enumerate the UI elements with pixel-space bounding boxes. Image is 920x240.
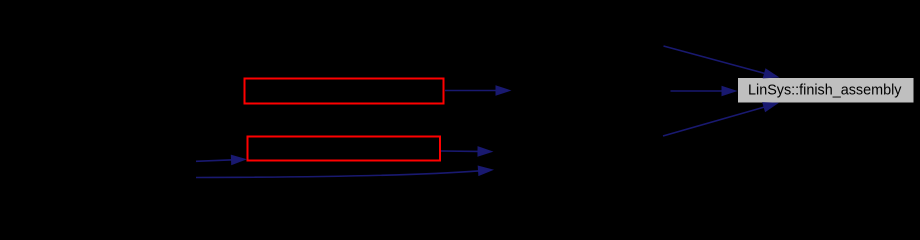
edge g: hidden left node -> red box 2	[196, 160, 233, 162]
node: red box 1 (truncated caller, label invisible)	[245, 79, 444, 104]
edge e: red box 2 -> hidden node right	[441, 150, 478, 152]
edge c: hidden top node -> gray box (diagonal down)	[664, 46, 766, 74]
node: gray root box LinSys::finish_assembly	[738, 78, 914, 103]
node: red box 2 (truncated caller, label invisible)	[248, 137, 441, 161]
edge d: hidden bottom node -> gray box (diagonal up)	[663, 107, 765, 136]
edge a: red box 1 -> hidden node	[445, 90, 496, 92]
edge f: hidden left node -> hidden node (long curve under box 2)	[196, 171, 479, 178]
edge b: hidden node -> gray box (horizontal)	[671, 90, 723, 92]
svg-text:LinSys::finish_assembly: LinSys::finish_assembly	[748, 83, 902, 99]
